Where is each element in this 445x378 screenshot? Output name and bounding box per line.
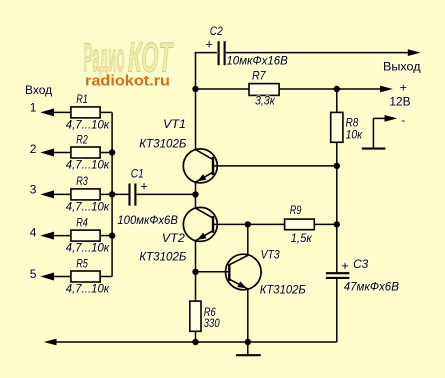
svg-text:R3: R3 xyxy=(76,174,88,188)
svg-text:R2: R2 xyxy=(76,132,88,146)
svg-text:КТ3102Б: КТ3102Б xyxy=(139,137,186,151)
junction R9 / C3 / R8 line xyxy=(334,221,340,227)
svg-text:4,7...10к: 4,7...10к xyxy=(66,241,111,255)
svg-text:4: 4 xyxy=(30,226,37,240)
minus terminal wire xyxy=(373,118,386,147)
resistor R5 xyxy=(71,271,100,282)
capacitor C3 xyxy=(326,273,350,278)
junction rail / R8 xyxy=(334,86,340,92)
svg-text:VT3: VT3 xyxy=(261,247,280,261)
resistor R8 xyxy=(331,112,343,142)
junction bus R3 C1 xyxy=(109,191,115,197)
svg-text:10к: 10к xyxy=(346,127,364,141)
wire C2-left / +12V rail / VT1 collector (vertical) xyxy=(195,53,197,150)
wire bus to C1 xyxy=(112,193,128,195)
wire R2 to bus xyxy=(100,152,112,154)
svg-text:100мкФх6В: 100мкФх6В xyxy=(117,213,177,227)
wire VT1 base to R8 node xyxy=(213,165,337,167)
wire VT3 base xyxy=(196,271,230,273)
svg-text:4,7...10к: 4,7...10к xyxy=(66,117,111,131)
wire C3 vertical from R9 node xyxy=(336,224,338,272)
wire R6 to rail xyxy=(195,331,197,342)
svg-text:VT1: VT1 xyxy=(163,117,186,131)
wire rail to R8 xyxy=(336,89,338,112)
input summing bus wire xyxy=(111,112,113,276)
svg-text:4,7...10к: 4,7...10к xyxy=(66,199,111,213)
wire corner to C2 left plate xyxy=(195,52,217,54)
svg-text:R1: R1 xyxy=(76,92,88,106)
input 4 terminal arrow xyxy=(40,232,71,240)
capacitor C1 xyxy=(130,184,136,206)
capacitor C2 xyxy=(219,41,225,65)
wire R5 to bus xyxy=(100,276,112,278)
svg-text:1,5к: 1,5к xyxy=(291,231,313,245)
input 5 terminal arrow xyxy=(40,273,71,281)
svg-text:12В: 12В xyxy=(389,95,410,109)
svg-text:+: + xyxy=(205,36,213,51)
wire R7 to +12V arrow xyxy=(279,88,381,90)
svg-text:Выход: Выход xyxy=(383,59,421,73)
resistor R9 xyxy=(285,219,315,230)
resistor R6 xyxy=(190,301,201,331)
svg-text:Вход: Вход xyxy=(25,83,52,97)
svg-text:2: 2 xyxy=(30,142,37,156)
minus terminal bar xyxy=(362,148,386,150)
ground symbol xyxy=(236,342,261,355)
ground rail wire xyxy=(55,341,337,343)
junction VT1 collector / +12V rail xyxy=(192,86,198,92)
transistor VT3 KT3102B xyxy=(226,254,262,290)
svg-text:КТ3102Б: КТ3102Б xyxy=(260,283,306,297)
junction rail / VT3 emitter / ground xyxy=(245,339,251,345)
svg-text:5: 5 xyxy=(30,267,37,281)
output terminal arrow xyxy=(408,49,421,56)
input 2 terminal arrow xyxy=(40,149,71,157)
wire R1 to bus xyxy=(100,111,112,113)
svg-text:VT2: VT2 xyxy=(162,231,185,245)
svg-text:+: + xyxy=(400,81,407,95)
svg-text:3: 3 xyxy=(30,182,37,196)
svg-text:КТ3102Б: КТ3102Б xyxy=(139,249,186,263)
svg-text:3,3к: 3,3к xyxy=(255,94,276,108)
svg-text:47мкФх6В: 47мкФх6В xyxy=(344,280,399,294)
svg-text:R5: R5 xyxy=(76,256,88,270)
svg-text:4,7...10к: 4,7...10к xyxy=(66,282,111,296)
svg-text:+: + xyxy=(140,179,148,194)
resistor R3 xyxy=(71,189,100,200)
transistor VT2 KT3102B (mirrored NPN) xyxy=(183,207,217,241)
wire R8 to VT1 base node xyxy=(336,142,338,224)
junction VT3 collector / R9 line xyxy=(245,221,251,227)
svg-text:C3: C3 xyxy=(353,257,369,271)
minus terminal arrow xyxy=(385,115,398,122)
wire R4 to bus xyxy=(100,235,112,237)
input 3 terminal arrow xyxy=(40,190,71,198)
svg-text:10мкФх16В: 10мкФх16В xyxy=(226,54,287,68)
transistor VT1 KT3102B (mirrored NPN) xyxy=(183,149,217,183)
wire R3 to bus xyxy=(100,193,112,195)
resistor R1 xyxy=(71,107,100,118)
input 1 terminal arrow xyxy=(40,108,71,116)
resistor R2 xyxy=(71,147,100,158)
wire C1 to VT1/VT2 node xyxy=(136,193,195,195)
svg-text:radiokot.ru: radiokot.ru xyxy=(85,74,170,90)
wire rail to R7 xyxy=(196,88,250,90)
junction bus R4 xyxy=(109,232,115,238)
resistor R7 xyxy=(249,84,279,96)
wire VT3 collector up to R9 line xyxy=(247,224,249,255)
svg-text:R4: R4 xyxy=(76,215,88,229)
rail left terminal arrow xyxy=(44,339,57,346)
junction R8 / VT1 base xyxy=(334,163,340,169)
svg-text:1: 1 xyxy=(30,101,37,115)
wire VT1 emitter to node xyxy=(195,182,197,208)
wire C3 to rail xyxy=(336,279,338,342)
svg-text:4,7...10к: 4,7...10к xyxy=(66,158,111,172)
svg-text:+: + xyxy=(341,258,349,273)
wire VT2 base to R9 xyxy=(213,223,285,225)
wire VT2 emitter down xyxy=(195,241,197,301)
junction C1 / VT1 emitter / VT2 collector xyxy=(192,191,198,197)
junction rail / R6 xyxy=(192,339,198,345)
watermark Радио КОТ / radiokot.ru xyxy=(84,34,174,90)
svg-text:330: 330 xyxy=(204,316,220,330)
wire R9 to C3 node xyxy=(314,223,337,225)
+12V terminal arrow xyxy=(380,86,393,93)
wire C2 to output xyxy=(226,52,409,54)
svg-text:-: - xyxy=(401,113,405,127)
svg-text:R7: R7 xyxy=(252,69,267,83)
resistor R4 xyxy=(71,230,100,241)
svg-text:R9: R9 xyxy=(290,203,302,217)
wire VT3 emitter down to rail xyxy=(247,289,249,342)
junction bus R2 xyxy=(109,149,115,155)
junction VT2 emitter / VT3 base xyxy=(192,269,198,275)
